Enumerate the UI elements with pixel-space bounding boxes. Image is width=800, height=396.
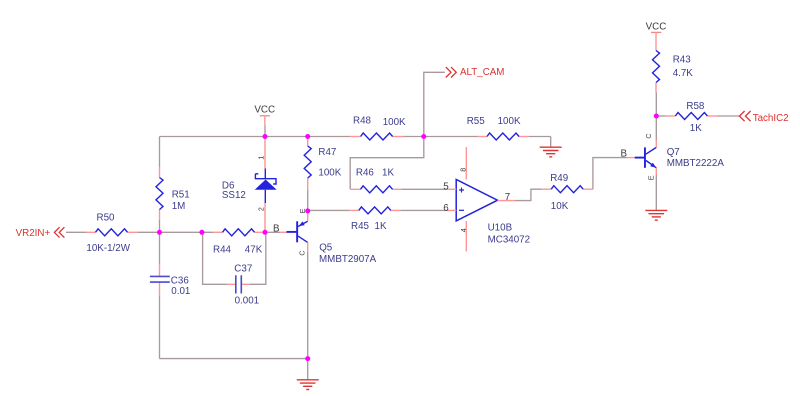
svg-text:10K: 10K bbox=[551, 201, 569, 212]
svg-text:C: C bbox=[298, 250, 307, 255]
resistor R50 bbox=[86, 213, 137, 255]
wire R46 bend bbox=[350, 137, 424, 190]
svg-text:R43: R43 bbox=[673, 55, 692, 66]
svg-text:U10B: U10B bbox=[488, 222, 513, 233]
svg-text:R50: R50 bbox=[97, 213, 116, 224]
svg-text:5: 5 bbox=[443, 181, 449, 192]
wire Q7 collector to junction bbox=[655, 116, 657, 140]
wire C37 branch left bbox=[203, 232, 227, 284]
svg-text:1K: 1K bbox=[690, 123, 702, 134]
power VCC (over D6) bbox=[254, 105, 275, 137]
junction node R47 top bbox=[305, 134, 310, 139]
net label VR2IN+ bbox=[16, 227, 65, 239]
svg-text:R55: R55 bbox=[467, 116, 486, 127]
wire R47 lower to emitter node bbox=[307, 190, 309, 211]
resistor R44 bbox=[213, 229, 265, 256]
svg-text:1K: 1K bbox=[375, 221, 387, 232]
svg-text:10K-1/2W: 10K-1/2W bbox=[86, 243, 130, 254]
resistor R48 bbox=[350, 116, 406, 140]
svg-text:2: 2 bbox=[257, 207, 266, 211]
svg-text:6: 6 bbox=[443, 203, 449, 214]
svg-text:1K: 1K bbox=[382, 168, 394, 179]
wire R43 to junction bbox=[655, 93, 657, 117]
resistor R51 bbox=[156, 167, 190, 220]
wire R45 to pin 6 bbox=[400, 209, 445, 211]
net label TachIC2 bbox=[739, 111, 788, 124]
op-amp U10B bbox=[443, 147, 530, 251]
svg-text:Q7: Q7 bbox=[667, 147, 680, 158]
ground bottom rail bbox=[297, 380, 319, 390]
resistor R47 bbox=[304, 137, 342, 191]
svg-text:1M: 1M bbox=[172, 201, 186, 212]
svg-text:C36: C36 bbox=[171, 275, 190, 286]
resistor R45 bbox=[349, 207, 400, 232]
resistor R58 bbox=[666, 101, 717, 134]
wire left rail mid bbox=[159, 220, 161, 264]
resistor R55 bbox=[467, 116, 529, 140]
wire left rail upper bbox=[159, 137, 161, 168]
diode D6 bbox=[222, 137, 277, 233]
svg-text:R49: R49 bbox=[550, 173, 568, 184]
svg-text:1: 1 bbox=[257, 156, 266, 160]
wire bottom rail bbox=[160, 358, 308, 360]
wire R45 line left bbox=[308, 209, 349, 211]
capacitor C36 bbox=[150, 264, 190, 297]
junction node VCC/D6 bbox=[263, 134, 268, 139]
svg-text:TachIC2: TachIC2 bbox=[753, 113, 789, 124]
wire R49 to Q7 base bbox=[593, 158, 627, 190]
wire R46 to pin 5 bbox=[402, 188, 445, 190]
svg-text:C: C bbox=[644, 133, 653, 138]
wire junction to R58 bbox=[656, 115, 666, 117]
junction node bottom ground bbox=[305, 356, 310, 361]
wire R44 to node B bbox=[265, 231, 281, 233]
svg-text:SS12: SS12 bbox=[222, 190, 246, 201]
wire R58 to TachIC2 bbox=[717, 115, 739, 117]
resistor R46 bbox=[350, 168, 402, 193]
svg-text:R58: R58 bbox=[686, 101, 705, 112]
wire top rail mid segment bbox=[403, 136, 477, 138]
wire ground drop after R55 bbox=[550, 137, 552, 148]
svg-text:R48: R48 bbox=[353, 116, 372, 127]
svg-text:VCC: VCC bbox=[646, 22, 667, 33]
wire Q7 emitter to ground bbox=[655, 175, 657, 210]
svg-text:R47: R47 bbox=[318, 147, 336, 158]
junction node R43/R58/Q7 bbox=[654, 114, 659, 119]
svg-text:B: B bbox=[621, 149, 628, 160]
svg-text:0.001: 0.001 bbox=[235, 296, 260, 307]
svg-text:47K: 47K bbox=[245, 244, 263, 255]
net label ALT_CAM bbox=[446, 67, 505, 78]
svg-text:E: E bbox=[646, 175, 655, 180]
wire R50 to node A bbox=[137, 231, 213, 233]
svg-text:MC34072: MC34072 bbox=[488, 234, 530, 245]
junction node Q5 emitter bbox=[305, 208, 310, 213]
svg-text:B: B bbox=[273, 223, 280, 234]
svg-text:ALT_CAM: ALT_CAM bbox=[460, 67, 504, 78]
svg-text:4.7K: 4.7K bbox=[673, 68, 694, 79]
svg-text:C37: C37 bbox=[234, 264, 252, 275]
wire ALT_CAM stem bbox=[424, 72, 445, 136]
transistor Q7 bbox=[621, 133, 725, 180]
junction node C37 left bbox=[199, 230, 204, 235]
svg-text:R44: R44 bbox=[213, 244, 232, 255]
transistor Q5 bbox=[273, 208, 377, 265]
svg-text:R46: R46 bbox=[356, 168, 375, 179]
svg-text:100K: 100K bbox=[383, 117, 406, 128]
svg-text:VR2IN+: VR2IN+ bbox=[16, 228, 51, 239]
wire top rail right segment bbox=[529, 136, 551, 138]
svg-text:MMBT2907A: MMBT2907A bbox=[319, 254, 377, 265]
svg-text:100K: 100K bbox=[498, 116, 521, 127]
svg-text:VCC: VCC bbox=[254, 105, 275, 116]
power VCC (over R43) bbox=[646, 22, 667, 43]
junction node D6 anode bbox=[263, 230, 268, 235]
wire top rail left segment bbox=[160, 136, 351, 138]
svg-text:R45: R45 bbox=[351, 221, 370, 232]
wire ground drop bottom bbox=[307, 359, 309, 380]
svg-text:Q5: Q5 bbox=[319, 243, 333, 254]
svg-text:7: 7 bbox=[505, 192, 510, 203]
svg-text:4: 4 bbox=[459, 228, 468, 232]
svg-text:100K: 100K bbox=[318, 168, 341, 179]
capacitor C37 bbox=[227, 264, 259, 307]
svg-text:R51: R51 bbox=[172, 190, 190, 201]
junction node ALT_CAM bbox=[421, 134, 426, 139]
ground Q7 emitter bbox=[645, 210, 667, 220]
resistor R43 bbox=[653, 43, 694, 93]
svg-text:0.01: 0.01 bbox=[171, 286, 190, 297]
wire C37 branch right bbox=[250, 232, 266, 284]
ground after R55 bbox=[540, 147, 562, 157]
svg-text:MMBT2222A: MMBT2222A bbox=[667, 158, 725, 169]
svg-text:8: 8 bbox=[459, 168, 468, 172]
wire Q5 collector rail bbox=[307, 252, 309, 359]
wire left rail lower bbox=[159, 295, 161, 358]
resistor R49 bbox=[542, 173, 593, 212]
wire VR2IN+ to R50 bbox=[66, 231, 86, 233]
wire opamp output bbox=[515, 189, 542, 200]
junction node A (R50/R51/C36) bbox=[157, 230, 162, 235]
